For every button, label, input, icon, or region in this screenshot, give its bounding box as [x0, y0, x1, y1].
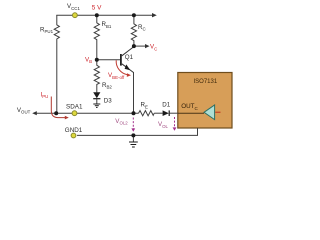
- svg-text:RPU1: RPU1: [40, 26, 54, 34]
- svg-text:VOL2: VOL2: [115, 118, 128, 126]
- svg-text:VOUT: VOUT: [17, 107, 31, 115]
- svg-text:RB1: RB1: [102, 21, 112, 29]
- svg-text:ISO7131: ISO7131: [194, 79, 218, 85]
- svg-text:VCC1: VCC1: [67, 3, 80, 11]
- svg-text:D1: D1: [162, 102, 170, 109]
- svg-text:Q1: Q1: [125, 54, 134, 61]
- svg-text:IPU: IPU: [41, 92, 49, 100]
- svg-text:SDA1: SDA1: [66, 104, 83, 111]
- svg-text:D3: D3: [104, 98, 112, 105]
- svg-text:GND1: GND1: [65, 127, 83, 134]
- svg-text:VB: VB: [85, 57, 92, 65]
- svg-text:RE: RE: [141, 102, 148, 110]
- svg-text:RB2: RB2: [102, 82, 112, 90]
- svg-text:5 V: 5 V: [92, 5, 102, 12]
- svg-text:VC: VC: [150, 44, 157, 52]
- svg-text:RC: RC: [138, 24, 146, 32]
- svg-text:VOL: VOL: [158, 121, 169, 129]
